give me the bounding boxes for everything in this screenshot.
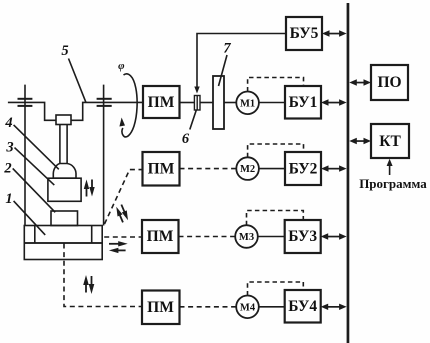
svg-text:7: 7 — [223, 41, 231, 57]
base — [24, 243, 102, 260]
bus link BU5 double arrow — [322, 30, 347, 36]
label 3 leader — [15, 148, 55, 186]
controller BU3 — [285, 220, 321, 253]
svg-text:ПМ: ПМ — [147, 228, 174, 245]
motor M1 — [236, 92, 259, 115]
arrowhead onto coupling — [194, 87, 199, 94]
svg-text:1: 1 — [5, 191, 12, 207]
bearing left support — [18, 85, 33, 226]
coupling 6 — [194, 96, 200, 111]
bus link BU4 double arrow — [321, 304, 347, 310]
rotation arc phi — [122, 74, 137, 137]
ram block 3 — [48, 178, 81, 201]
svg-text:ПМ: ПМ — [147, 299, 174, 316]
svg-text:БУ4: БУ4 — [288, 298, 317, 315]
actuator PM1 — [143, 86, 180, 118]
motor M2 — [236, 157, 259, 180]
wire PM3 to M3 dashed — [179, 236, 236, 238]
bus link BU1 double arrow — [321, 99, 347, 105]
wire PM4 to M4 dashed — [180, 306, 237, 308]
wire coupling to disc — [200, 102, 213, 104]
wire BU5 to coupling arrow — [197, 34, 286, 88]
feedback M2 to BU2 dashed — [248, 144, 304, 157]
svg-text:М4: М4 — [240, 302, 256, 313]
wire M3 to BU3 — [258, 236, 285, 238]
wire disc to M1 — [224, 102, 236, 104]
wire M4 to BU4 — [259, 306, 285, 308]
motor M3 — [235, 225, 258, 248]
connecting rod 4 — [60, 125, 67, 164]
bearing right support — [97, 85, 112, 226]
rotation arrow head — [119, 118, 125, 127]
svg-text:БУ2: БУ2 — [289, 161, 318, 178]
svg-text:БУ5: БУ5 — [290, 25, 319, 42]
controller BU4 — [285, 290, 321, 323]
svg-text:2: 2 — [3, 161, 11, 177]
tape reader KT — [371, 124, 409, 158]
svg-text:Программа: Программа — [359, 176, 427, 191]
feedback M3 to BU3 dashed — [247, 211, 304, 226]
svg-text:ПМ: ПМ — [148, 161, 175, 178]
wire table to PM3 dashed — [104, 236, 142, 238]
svg-text:М2: М2 — [240, 164, 255, 175]
controller BU5 — [286, 17, 322, 50]
bus link BU3 double arrow — [321, 233, 347, 239]
motion arrows base vertical pair — [83, 275, 94, 294]
svg-text:БУ3: БУ3 — [288, 228, 317, 245]
tool block 2 — [51, 211, 78, 226]
feedback M1 to BU1 dashed — [248, 78, 304, 92]
ram head — [53, 164, 76, 179]
label 2 leader — [13, 168, 56, 212]
actuator PM4 — [142, 291, 180, 325]
label 7 leader — [219, 55, 228, 86]
svg-text:ПО: ПО — [377, 74, 401, 91]
label 1 leader — [14, 201, 46, 235]
motor M4 — [236, 296, 259, 319]
label 4 leader — [14, 125, 59, 169]
bus link PO double arrow — [349, 79, 371, 85]
svg-text:φ: φ — [118, 60, 125, 72]
svg-text:КТ: КТ — [379, 133, 401, 150]
actuator PM3 — [142, 220, 179, 253]
svg-text:6: 6 — [182, 131, 190, 147]
svg-text:М3: М3 — [239, 232, 254, 243]
crankshaft 5 — [8, 102, 143, 120]
wire diagonal table to PM2 dashed — [105, 170, 143, 224]
svg-text:БУ1: БУ1 — [289, 94, 318, 111]
feedback M4 to BU4 dashed — [248, 282, 304, 296]
bus link KT double arrow — [349, 138, 371, 144]
svg-text:5: 5 — [61, 43, 68, 59]
svg-text:М1: М1 — [240, 98, 255, 109]
crank slider block — [56, 115, 71, 125]
wire PM1 to coupling — [180, 102, 195, 104]
motion arrows ram vertical pair — [84, 180, 95, 197]
motion arrows diagonal pair — [114, 204, 131, 224]
svg-text:3: 3 — [5, 140, 13, 156]
wire M2 to BU2 — [259, 168, 285, 170]
svg-text:4: 4 — [4, 115, 12, 131]
wire table down dashed — [64, 244, 142, 307]
disc 7 — [213, 76, 224, 129]
motion arrows table horizontal pair — [109, 241, 128, 253]
controller BU1 — [285, 86, 321, 119]
interface PO — [371, 65, 408, 100]
controller BU2 — [285, 152, 321, 185]
table 1 — [24, 226, 102, 244]
bus link BU2 double arrow — [321, 165, 347, 171]
label 5 leader — [69, 59, 86, 103]
bus line — [347, 3, 350, 343]
wire PM2 to M2 dashed — [180, 168, 237, 170]
svg-text:ПМ: ПМ — [148, 94, 175, 111]
wire M1 to BU1 — [259, 102, 285, 104]
actuator PM2 — [143, 152, 180, 186]
label 6 leader — [190, 110, 197, 130]
Programma arrow into KT — [387, 159, 393, 175]
